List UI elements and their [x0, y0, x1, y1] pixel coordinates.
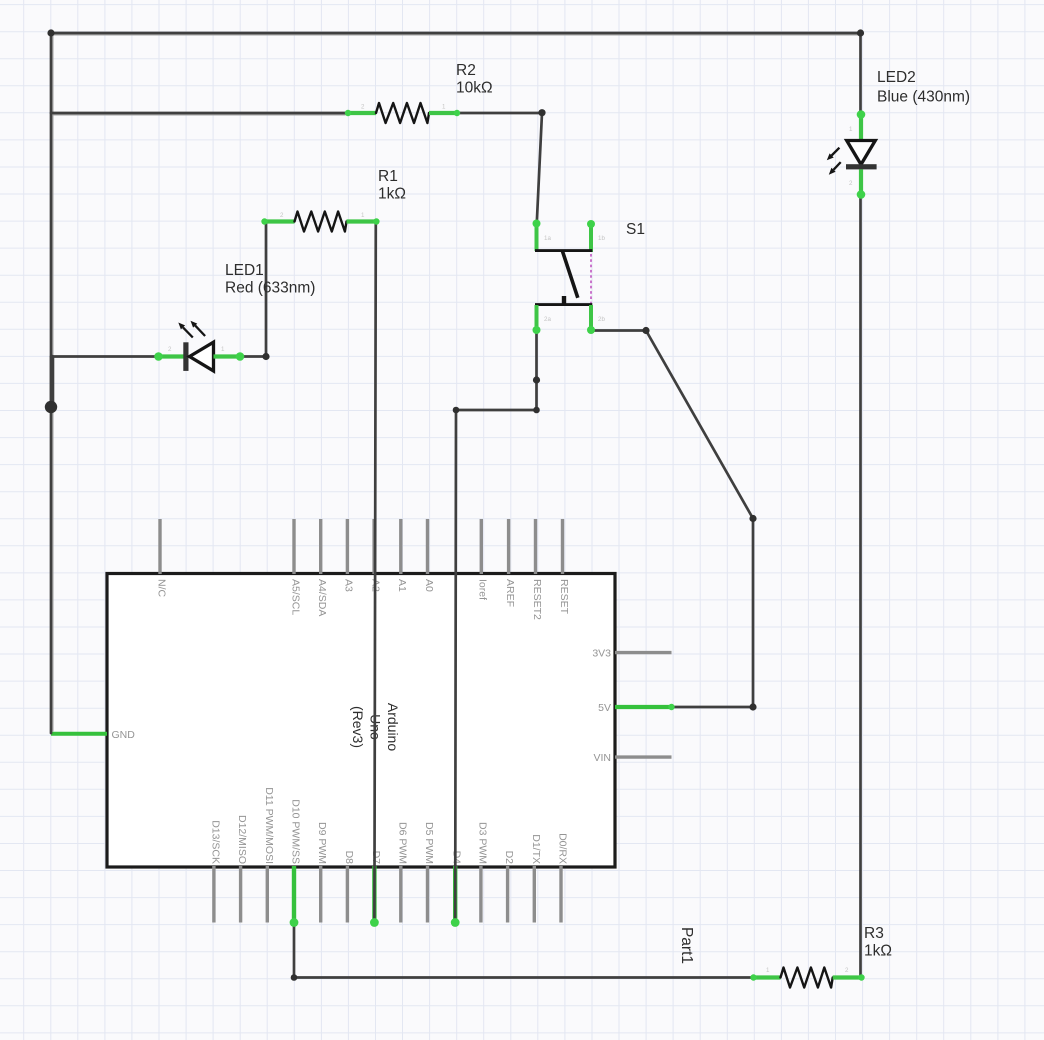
svg-text:S1: S1 — [626, 221, 645, 238]
svg-text:D12/MISO: D12/MISO — [236, 815, 248, 864]
junction blob left rail — [45, 401, 57, 413]
svg-text:Ioref: Ioref — [477, 579, 489, 600]
svg-text:D7: D7 — [370, 851, 382, 865]
wire y113 left segment — [51, 112, 347, 115]
U1 bottom pin stub D12/MISO — [239, 866, 242, 923]
wire D10 to R3 — [294, 976, 754, 979]
U1 top pin stub Ioref — [480, 519, 483, 574]
svg-text:1: 1 — [221, 346, 225, 353]
switch S1 — [535, 223, 539, 251]
wire down to D4 — [454, 410, 457, 922]
wire right rail lower — [859, 195, 862, 978]
U1 top pin stub N/C — [158, 519, 161, 574]
U1 bottom pin stub D9 PWM — [319, 866, 322, 923]
svg-text:2: 2 — [280, 212, 284, 219]
svg-text:Red (633nm): Red (633nm) — [225, 280, 315, 297]
U1 right pin stub 3V3 — [615, 651, 672, 654]
wire LED1 to corner — [240, 355, 266, 358]
wire S1 corner left — [456, 409, 537, 412]
svg-text:A5/SCL: A5/SCL — [289, 579, 301, 615]
U1 bottom pin stub D13/SCK — [212, 866, 215, 923]
svg-text:VIN: VIN — [593, 752, 611, 764]
svg-text:D8: D8 — [343, 851, 355, 865]
svg-text:Part1: Part1 — [678, 927, 695, 964]
svg-text:N/C: N/C — [155, 579, 167, 598]
U1 top pin stub A2 — [372, 519, 375, 574]
svg-text:A3: A3 — [343, 579, 355, 592]
svg-text:1: 1 — [849, 126, 853, 133]
wire diagonal to 5V drop — [646, 331, 753, 519]
junction top-right — [857, 29, 864, 36]
wire LED1 left segment — [51, 355, 158, 358]
pin tip dot 5V — [668, 704, 674, 710]
svg-text:R3: R3 — [864, 925, 884, 942]
svg-text:D5 PWM: D5 PWM — [423, 822, 435, 864]
wire left rail shadow — [52, 35, 54, 731]
svg-text:2b: 2b — [598, 316, 605, 323]
svg-text:A0: A0 — [423, 579, 435, 592]
pin tip dot D10 — [290, 918, 299, 927]
junction R2 corner — [538, 109, 545, 116]
wire 5V horizontal — [672, 706, 753, 709]
svg-text:2: 2 — [168, 346, 172, 353]
svg-text:D2: D2 — [503, 851, 515, 865]
svg-text:LED1: LED1 — [225, 262, 264, 279]
junction 5V corner — [749, 703, 756, 710]
U1 right pin stub 5V — [615, 705, 672, 709]
svg-text:D10 PWM/SS: D10 PWM/SS — [290, 799, 302, 864]
junction wire end — [453, 407, 460, 414]
svg-text:3V3: 3V3 — [592, 647, 611, 659]
wire top rail — [51, 32, 861, 35]
svg-text:A4/SDA: A4/SDA — [316, 579, 328, 616]
junction top-left — [47, 29, 54, 36]
wire corner to S1 pin — [537, 113, 542, 223]
svg-text:1: 1 — [442, 104, 446, 111]
svg-text:R1: R1 — [378, 168, 398, 185]
svg-text:D13/SCK: D13/SCK — [209, 820, 221, 864]
U1 right pin stub VIN — [615, 755, 672, 758]
svg-text:R2: R2 — [456, 62, 476, 79]
svg-text:Blue (430nm): Blue (430nm) — [877, 89, 970, 106]
U1 bottom pin stub D8 — [346, 866, 349, 923]
junction S1 corner — [533, 407, 540, 414]
svg-text:1: 1 — [766, 967, 770, 974]
U1 top pin stub RESET — [561, 519, 564, 574]
svg-text:1a: 1a — [544, 235, 551, 242]
wire right rail upper — [859, 33, 862, 114]
junction S1 right corner — [642, 327, 649, 334]
U1 top pin stub AREF — [507, 519, 510, 574]
svg-text:D11 PWM/MOSI: D11 PWM/MOSI — [263, 787, 275, 864]
svg-text:RESET: RESET — [558, 579, 570, 615]
U1 top pin stub A4/SDA — [319, 519, 322, 574]
IC U1 Arduino Uno (Rev3) body — [107, 574, 615, 868]
U1 bottom pin stub D11 PWM/MOSI — [266, 866, 269, 923]
resistor R3 — [754, 975, 781, 979]
wire left rail overlap — [50, 357, 55, 406]
svg-text:D9 PWM: D9 PWM — [316, 822, 328, 864]
pin tip dot D4 — [451, 918, 460, 927]
svg-text:1b: 1b — [598, 235, 605, 242]
svg-text:D1/TX: D1/TX — [530, 834, 542, 864]
U1 top pin stub A0 — [426, 519, 429, 574]
svg-text:1kΩ: 1kΩ — [378, 186, 406, 203]
U1 top pin stub A1 — [399, 519, 402, 574]
wire R2 to corner — [458, 112, 543, 115]
LED LED2 Blue — [859, 115, 863, 141]
svg-text:D3 PWM: D3 PWM — [476, 822, 488, 864]
U1 left pin stub GND — [51, 732, 107, 736]
svg-text:2: 2 — [845, 967, 849, 974]
LED LED1 Red — [159, 354, 185, 358]
resistor R2 — [348, 111, 376, 115]
svg-text:D6 PWM: D6 PWM — [396, 822, 408, 864]
svg-text:LED2: LED2 — [877, 69, 916, 86]
svg-text:RESET2: RESET2 — [531, 579, 543, 620]
svg-text:AREF: AREF — [504, 579, 516, 607]
svg-text:(Rev3): (Rev3) — [350, 706, 366, 748]
junction diagonal corner — [749, 515, 756, 522]
wire top rail shadow — [53, 34, 859, 36]
svg-text:A1: A1 — [396, 579, 408, 592]
wire S1 lower-right to corner — [591, 329, 646, 332]
U1 top pin stub A3 — [346, 519, 349, 574]
wire left rail — [50, 33, 53, 733]
U1 bottom pin stub D7 — [372, 866, 376, 923]
wire S1 lower-left down — [535, 331, 538, 411]
svg-text:D0/RX: D0/RX — [557, 833, 569, 864]
wire R1 down to D7 — [374, 222, 375, 922]
U1 bottom pin stub D4 — [453, 866, 457, 923]
U1 bottom pin stub D10 PWM/SS — [292, 866, 296, 923]
U1 top pin stub RESET2 — [534, 519, 537, 574]
U1 bottom pin stub D5 PWM — [426, 866, 429, 923]
wire y113 shadow — [53, 114, 345, 116]
junction D10 corner — [291, 974, 298, 981]
svg-text:2: 2 — [361, 104, 365, 111]
junction LED1 corner — [262, 353, 269, 360]
svg-text:2: 2 — [849, 180, 853, 187]
U1 bottom pin stub D2 — [506, 866, 509, 923]
U1 bottom pin stub D6 PWM — [399, 866, 402, 923]
wire corner up to R1 — [265, 222, 268, 357]
svg-text:5V: 5V — [598, 702, 611, 714]
svg-text:1kΩ: 1kΩ — [864, 943, 892, 960]
U1 bottom pin stub D3 PWM — [479, 866, 482, 923]
svg-text:Arduino: Arduino — [385, 703, 401, 751]
pin tip dot D7 — [370, 918, 379, 927]
wire D10 down — [293, 922, 296, 978]
resistor R1 — [265, 219, 295, 223]
svg-text:GND: GND — [112, 729, 136, 741]
svg-text:D4: D4 — [451, 851, 463, 865]
U1 bottom pin stub D1/TX — [533, 866, 536, 923]
svg-text:1: 1 — [361, 212, 365, 219]
U1 top pin stub A5/SCL — [292, 519, 295, 574]
wire 5V drop vertical — [752, 519, 755, 708]
junction S1 drop — [533, 376, 540, 383]
svg-text:2a: 2a — [544, 316, 551, 323]
svg-text:10kΩ: 10kΩ — [456, 80, 493, 97]
U1 bottom pin stub D0/RX — [559, 866, 562, 923]
